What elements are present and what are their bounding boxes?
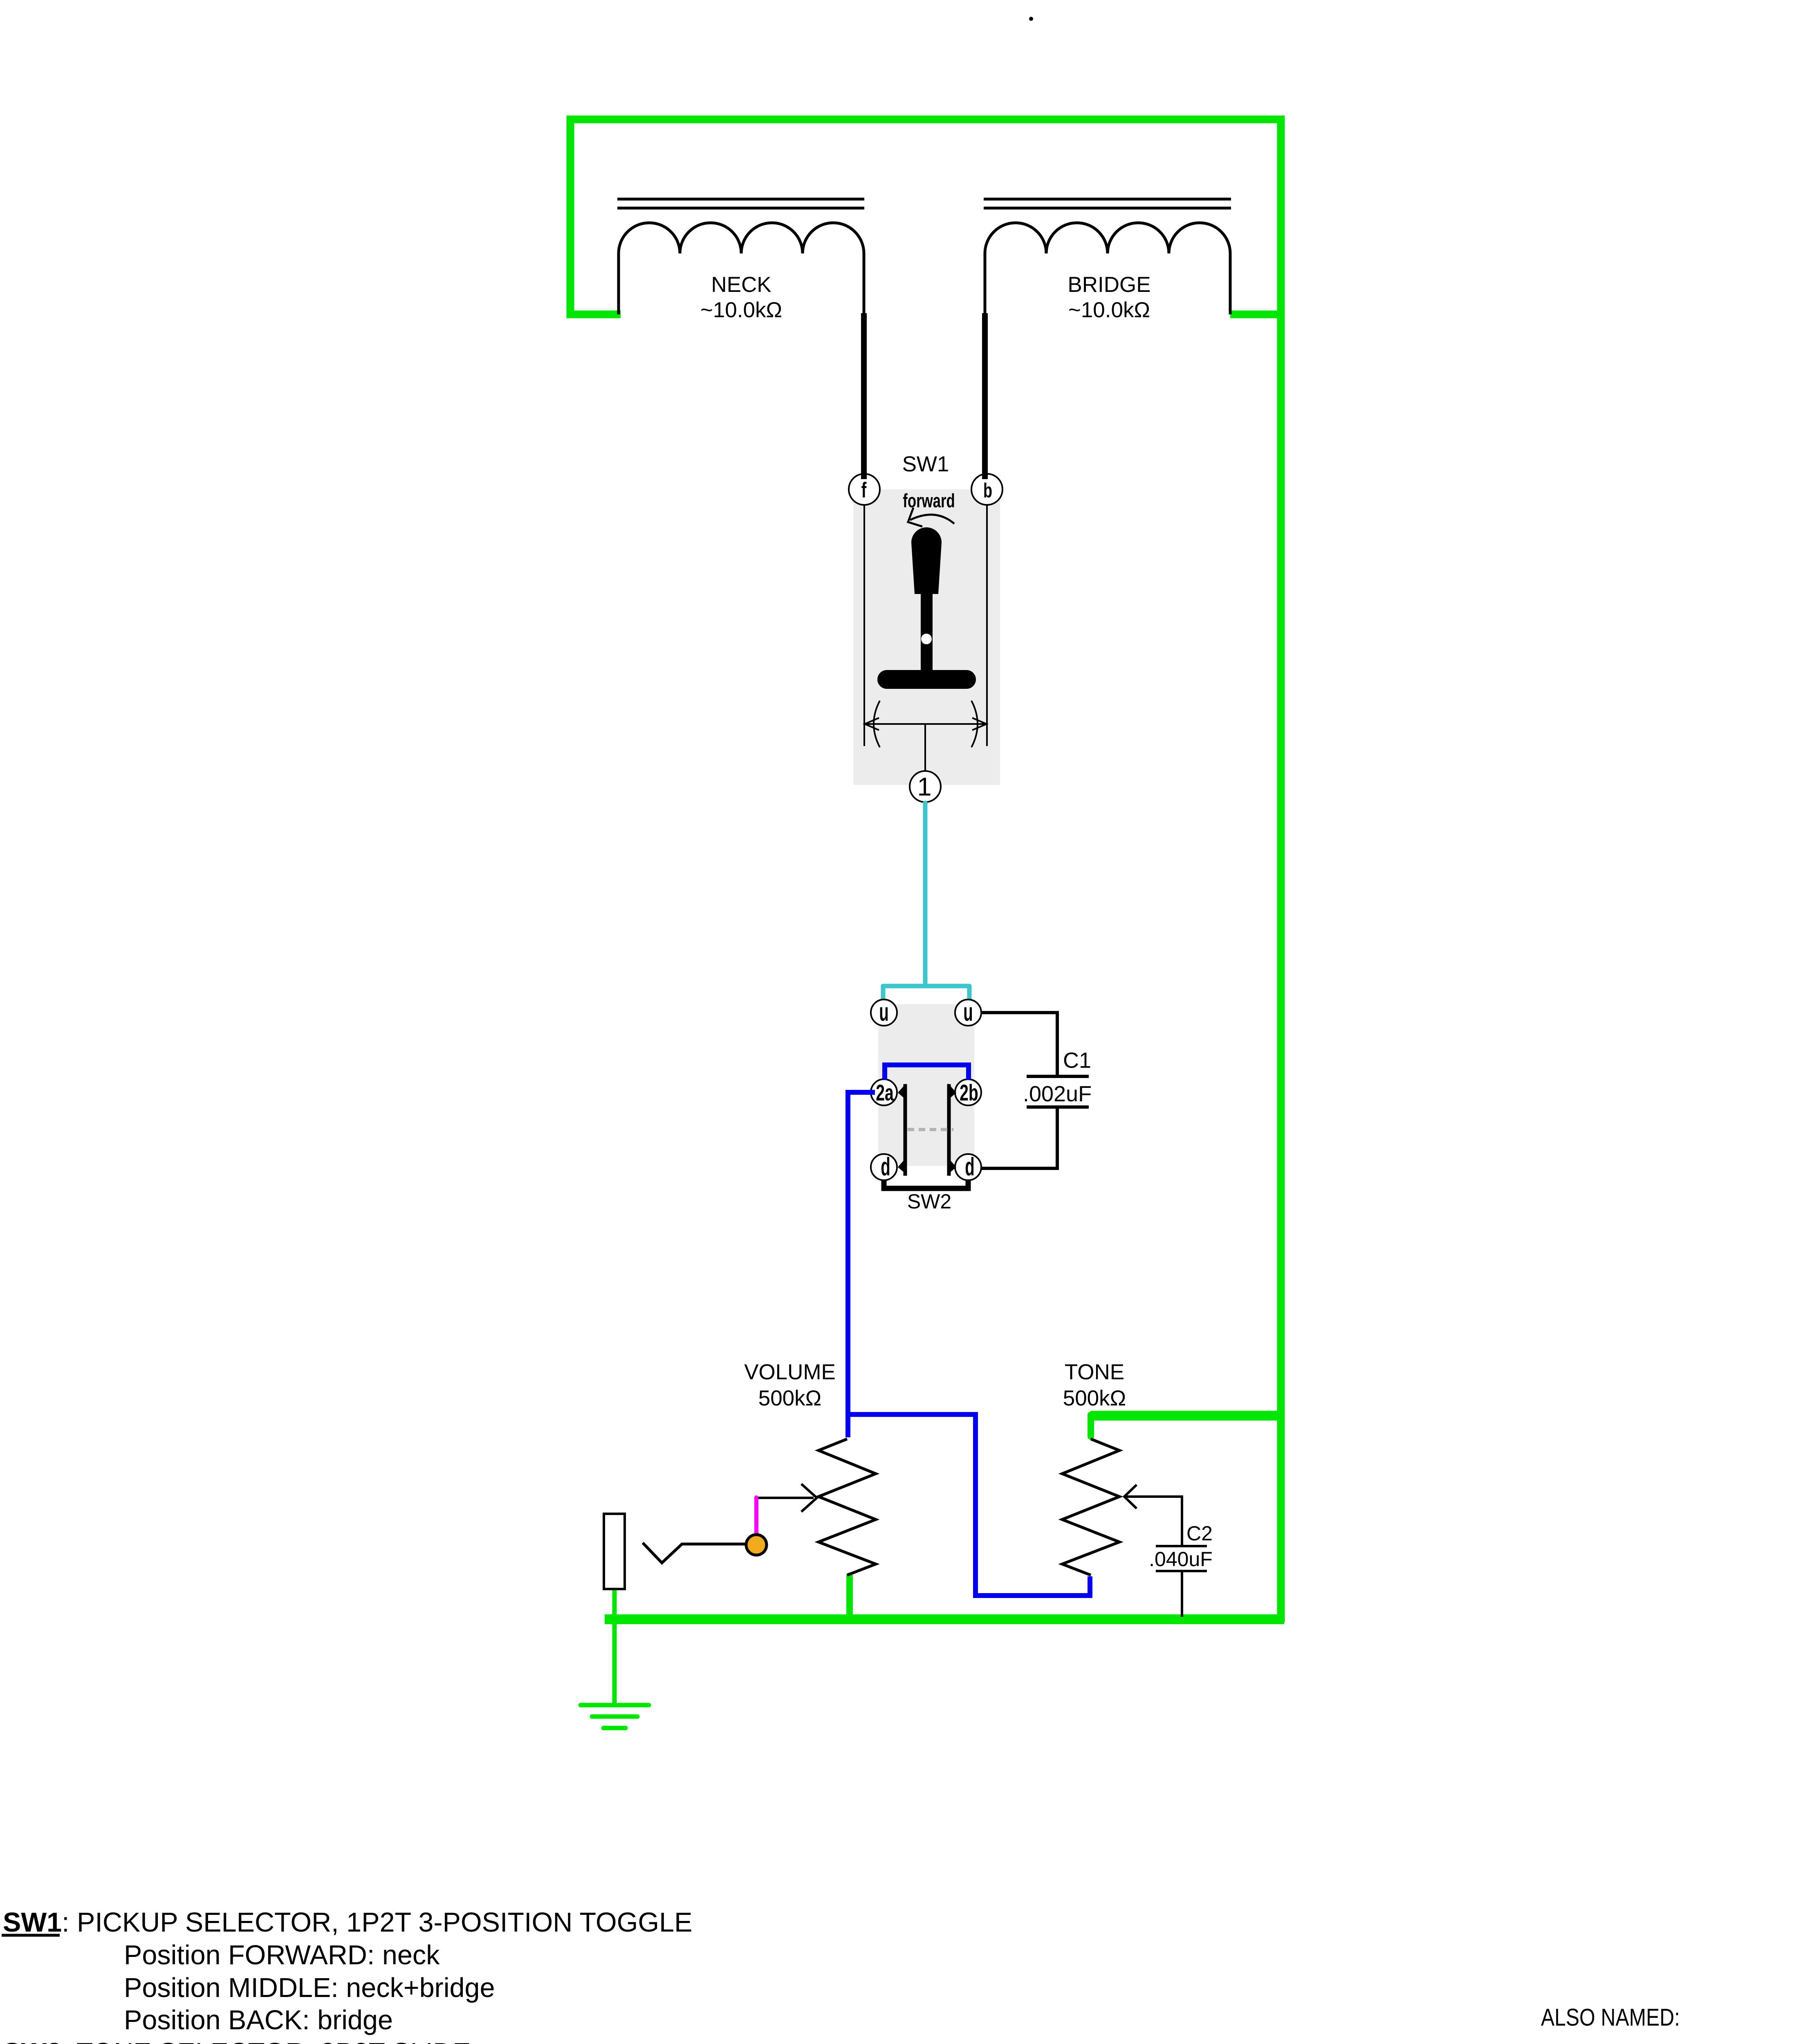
- VOLUME wiper arrow: [756, 1497, 814, 1499]
- svg-text:SW1: SW1: [902, 452, 949, 476]
- wire: green branch to TONE pot top: [1091, 1411, 1283, 1421]
- wire: cyan SW1 out to SW2: [883, 803, 969, 1002]
- svg-text:b: b: [983, 480, 992, 502]
- inductor NECK pickup: [617, 199, 864, 315]
- wire: u to C1: [981, 1013, 1057, 1078]
- svg-text:Position FORWARD: neck: Position FORWARD: neck: [124, 1940, 440, 1970]
- wire: jack sleeve to bus to ground: [612, 1589, 617, 1705]
- svg-text:u: u: [879, 998, 888, 1026]
- capacitor C1: [1027, 1076, 1089, 1107]
- ground: [581, 1705, 649, 1728]
- note SW2 description: [3, 2038, 548, 2044]
- switch SW2 body: [878, 1004, 974, 1166]
- svg-text:SW2: SW2: [907, 1190, 951, 1213]
- jack J1 body: [604, 1514, 625, 1589]
- wire: green stub to bridge pickup: [1230, 311, 1281, 318]
- svg-text:SW1: PICKUP SELECTOR, 1P2T 3-P: SW1: PICKUP SELECTOR, 1P2T 3-POSITION TO…: [3, 1907, 692, 1938]
- wire: blue net pots: [848, 1414, 1090, 1596]
- SW1 pole lines: [864, 505, 987, 746]
- SW1 toggle lever: [911, 527, 942, 594]
- svg-text:500kΩ: 500kΩ: [758, 1386, 822, 1410]
- svg-text:forward: forward: [903, 490, 955, 511]
- wire: C1 to d: [981, 1107, 1057, 1168]
- svg-text:~10.0kΩ: ~10.0kΩ: [1068, 298, 1150, 322]
- SW1 throw dimension line: [864, 701, 987, 771]
- SW2 travel dashed line: [908, 1128, 953, 1131]
- svg-text:C2: C2: [1186, 1522, 1213, 1545]
- svg-text:d: d: [881, 1152, 890, 1181]
- potentiometer TONE resistor body: [1062, 1439, 1119, 1575]
- terminal f circle: [849, 474, 880, 505]
- note SW1 description: [3, 1907, 692, 2035]
- svg-text:.002uF: .002uF: [1023, 1082, 1092, 1106]
- svg-text:2b: 2b: [960, 1080, 978, 1106]
- svg-text:BRIDGE: BRIDGE: [1067, 273, 1150, 297]
- svg-text:1: 1: [917, 773, 931, 801]
- svg-text:2a: 2a: [876, 1080, 894, 1106]
- svg-text:VOLUME: VOLUME: [744, 1360, 836, 1384]
- svg-text:f: f: [861, 478, 867, 502]
- jack tip spring lead: [643, 1543, 746, 1563]
- svg-text:SW2: TONE SELECTOR, 2P2T SLIDE: SW2: TONE SELECTOR, 2P2T SLIDE on-on: [3, 2038, 548, 2044]
- terminal circles SW2: [871, 1000, 981, 1180]
- wire: green ground bus: [605, 1614, 1284, 1624]
- svg-text:u: u: [963, 998, 973, 1026]
- svg-text:Position BACK: bridge: Position BACK: bridge: [124, 2005, 393, 2035]
- svg-text:TONE: TONE: [1065, 1360, 1124, 1384]
- svg-text:500kΩ: 500kΩ: [1063, 1386, 1126, 1410]
- SW2 contact bars: [905, 1084, 949, 1176]
- node 1 output of SW1: [910, 771, 941, 802]
- wire: magenta wiper to jack tip: [754, 1497, 758, 1536]
- arrow forward direction: [908, 508, 954, 527]
- wire: neck hot to SW1 terminal f: [861, 313, 867, 479]
- svg-text:C1: C1: [1063, 1048, 1091, 1073]
- svg-text:.040uF: .040uF: [1149, 1548, 1213, 1571]
- svg-text:Position MIDDLE: neck+bridge: Position MIDDLE: neck+bridge: [124, 1973, 495, 2003]
- stray dot top center: [1029, 17, 1033, 21]
- wire: blue jumper 2a to 2b: [885, 1065, 969, 1080]
- jack tip contact: [746, 1535, 767, 1555]
- inductor BRIDGE pickup: [984, 199, 1231, 315]
- svg-text:~10.0kΩ: ~10.0kΩ: [700, 298, 782, 322]
- svg-text:d: d: [965, 1152, 974, 1181]
- svg-text:NECK: NECK: [711, 273, 771, 297]
- capacitor C2 body: [1156, 1546, 1207, 1571]
- wire: bridge hot to SW1 terminal b: [982, 313, 988, 479]
- junction dot green: [608, 1614, 618, 1625]
- wire: blue from 2a to pots: [848, 1092, 875, 1414]
- svg-text:ALSO NAMED:: ALSO NAMED:: [1541, 2004, 1680, 2031]
- wire: green ground net (main loop): [570, 119, 1284, 1705]
- TONE wiper arrow: [1124, 1497, 1182, 1546]
- switch SW1 body: [853, 489, 1000, 785]
- potentiometer VOLUME resistor body: [819, 1439, 876, 1575]
- wire: black d-d jumper: [884, 1180, 968, 1188]
- wire: green VOLUME pot bottom stub: [846, 1576, 853, 1617]
- terminal b circle: [971, 474, 1002, 505]
